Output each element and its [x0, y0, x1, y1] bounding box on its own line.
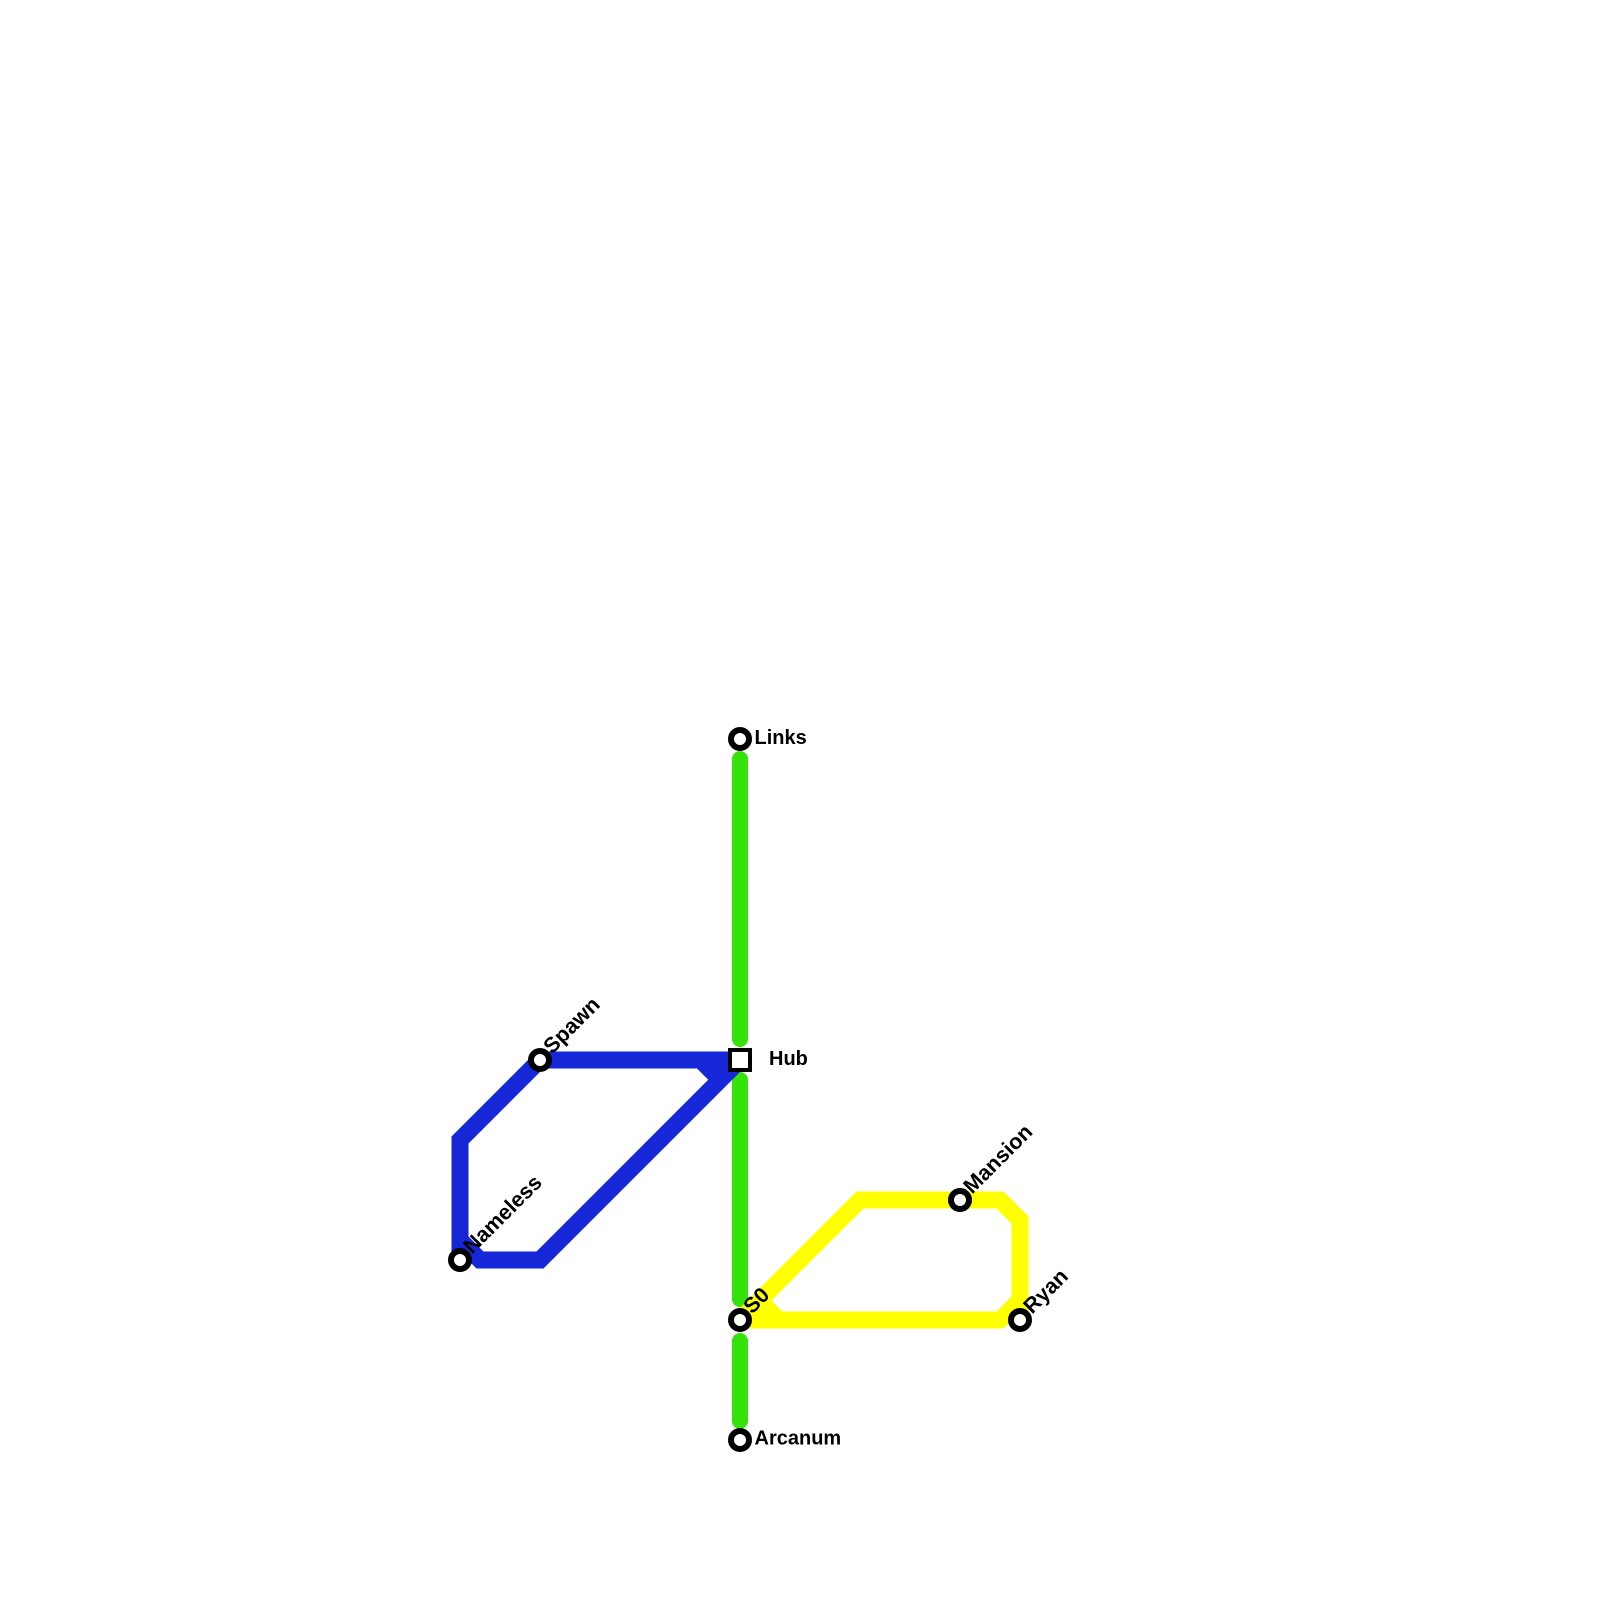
svg-text:Links: Links — [755, 727, 807, 749]
svg-text:Arcanum: Arcanum — [755, 1428, 842, 1450]
svg-text:Hub: Hub — [769, 1048, 808, 1070]
